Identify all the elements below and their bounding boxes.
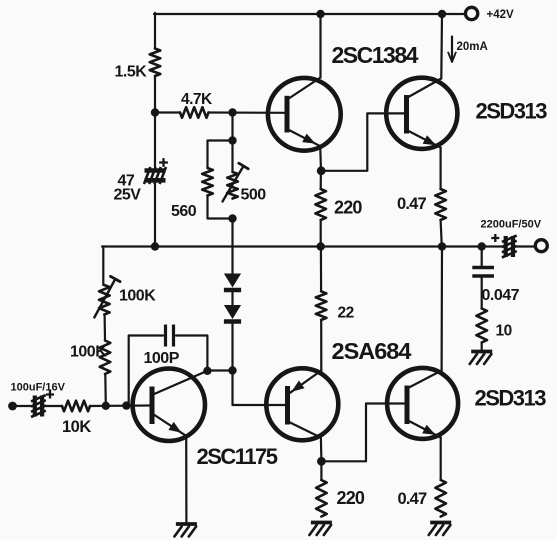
- emitter lead Q1: [288, 130, 320, 146]
- wire bias chain top: [231, 113, 233, 141]
- wire C1 to bus: [154, 184, 156, 247]
- svg-text:10: 10: [496, 323, 512, 340]
- emitter arrow Q5: [422, 425, 435, 435]
- wire bus to R5: [102, 247, 104, 286]
- wire Q5 emitter to R12: [440, 438, 442, 481]
- svg-text:2SA684: 2SA684: [332, 338, 412, 364]
- capacitor C3 100P: [164, 325, 167, 347]
- wire Q1 emitter down: [319, 146, 322, 171]
- collector lead Q2: [408, 79, 442, 98]
- node D2/Q3 collector net: [228, 366, 236, 374]
- svg-text:100uF/16V: 100uF/16V: [11, 382, 66, 394]
- svg-text:0.47: 0.47: [398, 490, 428, 508]
- wire R7 to Q3 base: [90, 404, 150, 407]
- svg-text:20mA: 20mA: [457, 41, 488, 53]
- node bus/C1: [151, 242, 159, 250]
- wire R8 to bus: [320, 220, 322, 247]
- wire output bus: [102, 245, 504, 247]
- svg-text:4.7K: 4.7K: [181, 91, 213, 108]
- resistor R3 560: [202, 168, 213, 196]
- resistor R2 4.7K: [180, 107, 209, 118]
- current arrow 20mA: [451, 37, 453, 62]
- wire zobel stub: [481, 247, 483, 266]
- wire Q3 emitter to ground: [185, 436, 187, 522]
- node base network junction: [228, 108, 236, 116]
- svg-text:2SD313: 2SD313: [476, 99, 548, 124]
- resistor R1 1.5K: [150, 49, 161, 77]
- polarity + of C1: [159, 158, 168, 167]
- node Q1 collector on rail: [316, 10, 324, 18]
- node Q2 collector on rail: [438, 10, 446, 18]
- wire R9 to Q4 emitter: [320, 320, 322, 372]
- diode D1: [224, 274, 241, 288]
- svg-text:100K: 100K: [119, 288, 156, 305]
- wire D1 to D2: [231, 291, 233, 305]
- wire Q4 collector down: [320, 438, 323, 462]
- emitter arrow Q4 (PNP): [292, 381, 305, 392]
- ground R10: [311, 521, 332, 525]
- base bar Q3: [150, 387, 155, 425]
- node bus/output: [478, 242, 486, 250]
- svg-text:22: 22: [338, 305, 354, 322]
- base bar Q1: [285, 96, 290, 133]
- collector lead Q3: [153, 371, 207, 395]
- node Q3 collector: [203, 367, 211, 375]
- resistor R6 100K: [100, 341, 111, 375]
- wire C5 to R13: [481, 278, 483, 309]
- terminal +42V: [465, 7, 477, 19]
- terminal output: [535, 240, 547, 252]
- trimmer R4 500: [227, 172, 238, 199]
- emitter arrow Q1: [302, 134, 315, 144]
- transistor Q3 2SC1175 body: [133, 369, 205, 441]
- wire R13 to ground: [481, 343, 483, 350]
- svg-text:220: 220: [334, 198, 362, 218]
- wire R5 to R6: [103, 315, 106, 341]
- svg-text:100P: 100P: [144, 350, 180, 367]
- svg-text:+42V: +42V: [487, 9, 515, 21]
- node 560/500 bottom: [228, 214, 236, 222]
- trimmer R5 100K: [99, 285, 110, 315]
- wire collector link: [207, 369, 232, 371]
- wire bus to R9: [320, 247, 322, 292]
- wire Q4 collector to R10: [320, 461, 322, 480]
- ground Q3: [176, 522, 197, 526]
- wire +42V top rail: [154, 13, 465, 15]
- emitter arrow Q2: [423, 135, 436, 145]
- svg-text:220: 220: [337, 488, 365, 508]
- resistor R13 10: [476, 309, 487, 343]
- wire 500 top lead: [231, 141, 233, 173]
- wire C2 to R7: [44, 405, 62, 407]
- wire Q2 collector: [440, 14, 443, 79]
- wire Q1 emitter to R8: [320, 171, 322, 189]
- resistor R7 10K: [62, 401, 90, 412]
- svg-text:10K: 10K: [62, 418, 91, 436]
- ground R12: [430, 521, 451, 525]
- svg-text:25V: 25V: [114, 187, 142, 204]
- svg-text:2SC1384: 2SC1384: [332, 42, 419, 68]
- resistor R10 220: [316, 480, 327, 517]
- capacitor C5 0.047: [472, 266, 494, 270]
- transistor Q4 2SA684 body: [266, 368, 338, 440]
- wire bias chain to D1 (crosses bus): [231, 219, 233, 274]
- wire emitter to Q2 base: [321, 113, 404, 170]
- svg-text:2200uF/50V: 2200uF/50V: [481, 219, 542, 231]
- wire C3 riser: [129, 336, 163, 406]
- node R6/base: [102, 402, 110, 410]
- node bus/R8: [317, 242, 325, 250]
- wire R6 to input node: [104, 374, 107, 406]
- node bus/R11: [438, 242, 446, 250]
- transistor Q2 2SD313 body: [386, 78, 457, 149]
- polarity + of C2: [46, 391, 54, 399]
- wire Q5 collector to bus: [441, 247, 444, 371]
- emitter arrow Q3: [168, 422, 181, 433]
- transistor Q1 2SC1384 body: [268, 78, 341, 151]
- capacitor C2 100uF/16V: [33, 396, 37, 417]
- svg-text:1.5K: 1.5K: [115, 64, 148, 81]
- svg-text:500: 500: [241, 187, 267, 204]
- terminal input: [8, 402, 17, 411]
- transistor Q5 2SD313 body: [387, 368, 458, 439]
- svg-text:0.47: 0.47: [397, 195, 427, 213]
- node Q4 collector: [317, 457, 326, 466]
- wire node to Q4 base: [233, 371, 286, 406]
- emitter lead Q4: [290, 371, 321, 393]
- wire 560 branch bottom: [208, 196, 233, 219]
- svg-text:2SC1175: 2SC1175: [197, 444, 278, 469]
- node Q1 emitter: [317, 166, 326, 175]
- capacitor C4 2200uF/50V: [504, 236, 508, 257]
- resistor R12 0.47: [435, 480, 446, 517]
- polarity + of C4: [491, 234, 499, 242]
- wire Q1 collector: [319, 14, 321, 78]
- wire 560 branch top: [208, 141, 233, 169]
- wire R2 to Q1 base: [209, 111, 286, 114]
- node R1/R2 junction: [151, 108, 159, 116]
- wire to Q5 base: [321, 404, 405, 462]
- capacitor C1 47uF/25V: [145, 168, 166, 173]
- node C3/base: [122, 401, 130, 409]
- base bar Q2: [404, 95, 409, 134]
- collector lead Q4: [289, 422, 321, 438]
- resistor R8 220: [315, 189, 326, 220]
- resistor R11 0.47: [435, 189, 446, 220]
- wire R11 to bus: [441, 220, 442, 247]
- collector lead Q1: [288, 78, 321, 100]
- wire Q2 emitter to R11: [440, 148, 442, 190]
- svg-text:0.047: 0.047: [482, 287, 520, 304]
- collector lead Q5: [408, 371, 442, 389]
- node 560/500 top: [228, 136, 236, 144]
- emitter lead Q2: [408, 131, 441, 148]
- wire C3 to collector node: [176, 336, 207, 371]
- base bar Q5: [405, 386, 410, 425]
- diode D2: [224, 305, 241, 319]
- wire left column from rail: [154, 13, 156, 49]
- resistor R9 22: [316, 291, 327, 320]
- wire C4 to output terminal: [517, 245, 535, 247]
- emitter lead Q3: [153, 414, 186, 436]
- wire R1 node to R2: [155, 111, 180, 113]
- wire input to C2: [14, 405, 32, 407]
- svg-text:2SD313: 2SD313: [475, 386, 547, 411]
- svg-text:560: 560: [171, 203, 197, 220]
- emitter lead Q5: [408, 421, 441, 438]
- wire R1 to C1: [154, 76, 156, 167]
- wire D2 to node: [231, 322, 233, 371]
- base bar Q4: [285, 386, 290, 425]
- svg-text:100K: 100K: [70, 344, 107, 361]
- ground zobel: [471, 350, 492, 354]
